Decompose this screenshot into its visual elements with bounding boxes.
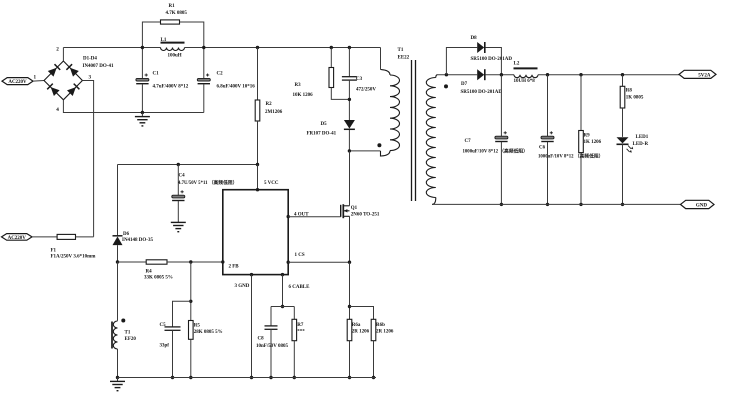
svg-text:1K 0805: 1K 0805 — [626, 96, 644, 101]
svg-text:2R 1206: 2R 1206 — [352, 330, 370, 335]
svg-text:C2: C2 — [217, 72, 224, 77]
svg-text:FR107 DO-41: FR107 DO-41 — [307, 132, 337, 137]
wire R3 top lead — [330, 48, 332, 68]
wire C5 bottom lead — [172, 330, 174, 377]
wire C1 bottom lead — [141, 84, 143, 112]
wire R8 to LED — [622, 108, 624, 137]
svg-text:5V2A: 5V2A — [698, 73, 711, 78]
diode D8 — [477, 42, 485, 53]
fuse F1 — [57, 234, 75, 239]
junction R2 top — [256, 46, 259, 49]
label D8 — [471, 36, 513, 62]
svg-text:1K 1206: 1K 1206 — [584, 140, 602, 145]
wire R3 bottom lead — [331, 88, 349, 100]
port AC220V (line 1) — [2, 78, 33, 86]
wire L2 to output — [538, 74, 679, 76]
transformer T1 secondary winding — [426, 75, 437, 205]
pin 3 label — [89, 75, 92, 81]
capacitor C7 — [495, 131, 508, 141]
label D6 — [122, 232, 153, 243]
svg-text:C8: C8 — [258, 337, 265, 342]
wire FB node to aux winding — [117, 262, 119, 321]
diode D7 — [477, 69, 485, 80]
resistor R6a — [347, 319, 352, 340]
wire R5 bottom lead — [190, 339, 192, 377]
label T1 aux — [125, 331, 137, 343]
wire C6 bottom lead — [547, 142, 549, 205]
junction OUT pin — [287, 215, 290, 218]
wire bridge pin3 down — [82, 81, 93, 237]
wire R9 bottom lead — [580, 153, 582, 205]
junction gnd bus left — [116, 376, 119, 379]
svg-text:C3: C3 — [356, 77, 363, 82]
wire R2 top lead — [257, 48, 259, 101]
junction C6 bottom — [546, 203, 549, 206]
port AC220V (line 2) — [2, 234, 33, 241]
wire R6b bottom lead — [373, 341, 375, 378]
label C7 — [463, 139, 528, 155]
svg-text:F1A/250V 3.6*10mm: F1A/250V 3.6*10mm — [51, 255, 97, 260]
wire primary top lead — [380, 48, 382, 70]
label R4 — [144, 270, 173, 281]
junction R9 bottom — [579, 203, 582, 206]
svg-text:R6b: R6b — [376, 323, 385, 328]
svg-text:2 FB: 2 FB — [229, 265, 240, 270]
svg-text:R4: R4 — [146, 270, 153, 275]
transformer T1 aux winding — [112, 321, 118, 349]
transistor Q1 — [341, 204, 350, 218]
svg-text:D1-D4: D1-D4 — [83, 57, 97, 62]
ground below bus — [110, 378, 125, 391]
wire VCC rail to D6 — [117, 165, 119, 236]
phase dot aux winding — [121, 319, 125, 323]
junction R9 top — [579, 73, 582, 76]
wire primary ground bus — [118, 377, 377, 379]
capacitor C3 — [342, 77, 357, 80]
wire C3 top lead — [348, 48, 350, 77]
junction R3 top — [330, 46, 333, 49]
junction GND pin — [250, 273, 253, 276]
wire D6 to FB node — [117, 245, 119, 262]
wire C7 bottom lead — [500, 142, 502, 205]
pin 3 GND label — [235, 284, 250, 289]
capacitor C4 — [172, 190, 185, 200]
svg-text:4: 4 — [56, 107, 59, 113]
svg-text:LED1: LED1 — [636, 135, 649, 140]
wire aux to ground bus — [117, 349, 119, 378]
svg-text:AC220V: AC220V — [8, 236, 27, 241]
wire AC2 to fuse — [32, 236, 57, 238]
svg-text:IN4007 DO-41: IN4007 DO-41 — [83, 64, 114, 69]
inductor L1 — [161, 43, 185, 51]
label R6b — [376, 323, 394, 335]
svg-text:6 CABLE: 6 CABLE — [289, 285, 311, 290]
wire bridge bottom to gnd bus — [63, 100, 203, 113]
svg-text:10K 1206: 10K 1206 — [293, 93, 314, 98]
label R8 — [626, 89, 644, 101]
wire FB right — [167, 261, 223, 263]
svg-text:5 VCC: 5 VCC — [264, 181, 279, 186]
svg-text:C5: C5 — [160, 323, 167, 328]
svg-text:R9: R9 — [584, 134, 591, 139]
junction R5 bottom — [189, 376, 192, 379]
wire R1 left lead — [142, 22, 160, 48]
svg-text:GND: GND — [696, 204, 708, 209]
junction CABLE pin — [281, 273, 284, 276]
svg-text:4.7K 0805: 4.7K 0805 — [166, 11, 188, 16]
transformer core — [412, 60, 416, 201]
capacitor C5 — [165, 327, 181, 330]
svg-text:6.8uF/400V 10*16: 6.8uF/400V 10*16 — [217, 85, 256, 90]
label R3 — [293, 83, 314, 98]
capacitor C2 — [197, 74, 210, 84]
wire R7 bottom lead — [293, 341, 295, 378]
pin 4 OUT label — [294, 213, 309, 218]
wire FB left — [118, 261, 147, 263]
svg-text:SR5100 DO-201AD: SR5100 DO-201AD — [471, 57, 513, 62]
svg-text:R1: R1 — [169, 4, 176, 9]
junction CS-source — [348, 261, 351, 264]
wire D7 to node — [485, 74, 514, 76]
wire D8 to node — [485, 48, 501, 75]
wire R1 right lead — [180, 22, 204, 48]
op-amp U1 control IC — [223, 190, 288, 275]
svg-text:2R 1206: 2R 1206 — [376, 330, 394, 335]
junction R2-VCC — [256, 163, 259, 166]
svg-text:C7: C7 — [465, 139, 472, 144]
svg-text:R2: R2 — [266, 102, 273, 107]
wire secondary top — [438, 74, 478, 76]
wire C2 bottom lead — [203, 84, 205, 112]
pin 1 CS label — [295, 253, 305, 258]
svg-text:1000uF/10V 8*12 （高频低阻）: 1000uF/10V 8*12 （高频低阻） — [463, 148, 528, 155]
wire C1 top lead — [141, 48, 143, 79]
wire top bus — [63, 47, 160, 49]
junction C7 bottom — [500, 203, 503, 206]
port GND — [681, 200, 715, 208]
wire C8 top lead — [270, 307, 272, 326]
resistor R7 — [292, 319, 297, 340]
svg-text:10UH 6*8: 10UH 6*8 — [514, 79, 536, 84]
svg-text:C4: C4 — [179, 174, 186, 179]
svg-text:C6: C6 — [539, 146, 546, 151]
label C8 — [256, 337, 288, 350]
junction D8 branch — [445, 73, 448, 76]
svg-text:Q1: Q1 — [351, 206, 358, 211]
wire Q1 source — [349, 216, 351, 262]
wire C8 bottom lead — [270, 329, 272, 377]
svg-text:3: 3 — [89, 75, 92, 81]
junction R3-C3 — [348, 98, 351, 101]
junction CS pin — [287, 261, 290, 264]
wire bridge top to bus — [62, 48, 64, 62]
wire OUT to gate — [288, 216, 341, 218]
svg-text:T1: T1 — [125, 331, 131, 336]
label R9 — [584, 134, 602, 146]
wire C5 top link — [173, 301, 191, 327]
junction FB pin — [221, 260, 224, 263]
junction CABLE tee — [281, 305, 284, 308]
pin 6 CABLE label — [289, 285, 311, 290]
pin 2 label — [56, 47, 59, 53]
wire source split to R6b — [350, 307, 374, 320]
junction C3 top — [348, 46, 351, 49]
junction rectifier node — [500, 73, 503, 76]
junction C4 top — [177, 163, 180, 166]
wire C4 top lead — [177, 165, 179, 196]
wire D8 branch up — [446, 48, 477, 75]
junction VCC pin — [256, 188, 259, 191]
label C1 — [153, 72, 189, 90]
resistor R9 — [579, 131, 584, 153]
label L2 — [514, 62, 536, 85]
svg-text:D8: D8 — [471, 36, 478, 41]
wire C3 bottom lead — [348, 80, 350, 120]
svg-text:2M1206: 2M1206 — [265, 110, 283, 115]
svg-text:***: *** — [297, 330, 305, 335]
svg-text:2N60 TO-251: 2N60 TO-251 — [351, 213, 380, 218]
svg-text:33K 0805 5%: 33K 0805 5% — [144, 276, 173, 281]
transformer T1 primary winding — [381, 70, 400, 157]
resistor R4 — [146, 260, 167, 264]
wire R5 top lead — [190, 262, 192, 321]
ground below C1 — [135, 113, 150, 126]
junction drain node — [348, 149, 351, 152]
wire bus L1 to primary — [185, 47, 381, 49]
svg-text:472/250V: 472/250V — [356, 88, 376, 93]
junction IC GND bottom — [250, 376, 253, 379]
label L1 — [161, 38, 182, 59]
label R1 — [166, 4, 188, 16]
wire CS — [288, 261, 349, 263]
label R5 — [194, 324, 223, 336]
svg-text:SR5100 DO-201AD: SR5100 DO-201AD — [461, 90, 503, 95]
svg-text:D7: D7 — [461, 82, 468, 87]
diode D5 — [344, 120, 355, 129]
wire LED bottom lead — [622, 144, 624, 204]
svg-text:R7: R7 — [297, 323, 304, 328]
wire source down — [349, 262, 351, 319]
junction C2 top — [202, 46, 205, 49]
wire C7 top lead — [500, 75, 502, 137]
label R7 — [297, 323, 305, 335]
port 5V2A — [679, 70, 716, 78]
junction R6b bottom — [372, 376, 375, 379]
svg-text:D5: D5 — [321, 122, 328, 127]
capacitor C6 — [541, 131, 554, 141]
label F1 — [51, 249, 97, 260]
svg-text:IN4148 DO-35: IN4148 DO-35 — [122, 238, 153, 243]
wire IC GND down — [251, 275, 253, 378]
svg-text:LED-R: LED-R — [633, 142, 649, 147]
junction R7 bottom — [293, 376, 296, 379]
svg-text:1: 1 — [34, 75, 37, 81]
svg-text:F1: F1 — [51, 249, 57, 254]
svg-text:100uH: 100uH — [168, 54, 182, 59]
label R2 — [265, 102, 283, 115]
junction C1 bottom — [141, 111, 144, 114]
svg-text:L1: L1 — [161, 38, 167, 43]
svg-text:R8: R8 — [626, 89, 633, 94]
resistor R3 — [329, 68, 334, 88]
svg-text:2: 2 — [56, 47, 59, 53]
wire R9 top lead — [580, 75, 582, 131]
svg-text:33pf: 33pf — [160, 344, 170, 349]
resistor R8 — [620, 86, 625, 108]
label Q1 — [351, 206, 380, 218]
svg-text:AC220V: AC220V — [8, 80, 27, 85]
label C5 — [160, 323, 170, 349]
label R6a — [352, 323, 370, 335]
inductor L2 — [514, 68, 539, 77]
junction C6 top — [546, 73, 549, 76]
resistor R5 — [189, 321, 194, 340]
svg-text:3 GND: 3 GND — [235, 284, 250, 289]
wire fuse to bridge pin3 — [76, 236, 94, 238]
label D1-D4 — [83, 57, 114, 70]
junction C5 tap — [189, 300, 192, 303]
wire R8 top lead — [622, 75, 624, 87]
label D5 — [307, 122, 337, 137]
wire VCC rail — [118, 164, 258, 166]
label LED1 — [633, 135, 649, 147]
label T1 — [398, 48, 410, 61]
junction LED bottom — [621, 203, 624, 206]
junction R4-R5 — [189, 260, 192, 263]
junction R8 top — [621, 73, 624, 76]
label C2 — [217, 72, 256, 90]
wire AC line1 to bridge — [33, 80, 44, 83]
svg-text:L2: L2 — [514, 62, 520, 67]
svg-text:R3: R3 — [295, 83, 302, 88]
wire C6 top lead — [547, 75, 549, 137]
phase dot secondary — [444, 84, 448, 88]
wire VCC to IC — [257, 165, 259, 190]
junction D6-R4 — [116, 260, 119, 263]
junction C8 bottom — [269, 376, 272, 379]
svg-text:28K 0805 5%: 28K 0805 5% — [194, 330, 223, 335]
junction C5 bottom — [171, 376, 174, 379]
pin 2 FB label — [229, 265, 240, 270]
svg-text:10nF/50V 0805: 10nF/50V 0805 — [256, 344, 288, 349]
svg-text:4.7uF/400V 8*12: 4.7uF/400V 8*12 — [153, 85, 189, 90]
svg-text:R5: R5 — [194, 324, 201, 329]
junction source split — [348, 305, 351, 308]
wire secondary ground bus — [432, 203, 681, 205]
wire CABLE down — [282, 275, 284, 307]
pin 5 VCC label — [264, 181, 279, 186]
bridge rectifier D1-D4 — [44, 61, 82, 100]
svg-text:1 CS: 1 CS — [295, 253, 305, 258]
capacitor C8 — [265, 326, 278, 329]
phase dot primary — [377, 143, 381, 147]
diode D6 — [113, 236, 123, 245]
wire R7 top lead — [293, 307, 295, 320]
wire R2 bottom lead — [257, 121, 259, 165]
pin 4 label — [56, 107, 59, 113]
LED LED1 — [617, 137, 634, 152]
ground below C4 — [171, 222, 186, 231]
label C3 — [356, 77, 376, 93]
svg-text:R6a: R6a — [352, 323, 361, 328]
wire Q1 drain — [349, 151, 351, 206]
wire R6a bottom lead — [349, 341, 351, 378]
junction C1 top — [141, 46, 144, 49]
wire CABLE tee — [271, 306, 294, 308]
label D7 — [461, 82, 503, 95]
junction R6a bottom — [348, 376, 351, 379]
wire D5 to primary bottom — [349, 130, 380, 151]
pin 1 label — [34, 75, 37, 81]
capacitor C1 — [136, 74, 149, 84]
svg-text:D6: D6 — [123, 232, 130, 237]
svg-text:EE22: EE22 — [398, 56, 410, 61]
svg-text:C1: C1 — [153, 72, 160, 77]
label C6 — [538, 146, 603, 160]
resistor R2 — [255, 100, 260, 121]
svg-text:T1: T1 — [398, 48, 404, 53]
svg-text:4.7U/50V 5*11 （高频低阻）: 4.7U/50V 5*11 （高频低阻） — [178, 179, 237, 186]
svg-text:EF20: EF20 — [125, 337, 137, 342]
wire C2 top lead — [203, 48, 205, 79]
resistor R1 — [161, 20, 180, 24]
resistor R6b — [371, 319, 376, 340]
wire C4 bottom lead — [177, 201, 179, 223]
label C4 — [178, 174, 237, 187]
